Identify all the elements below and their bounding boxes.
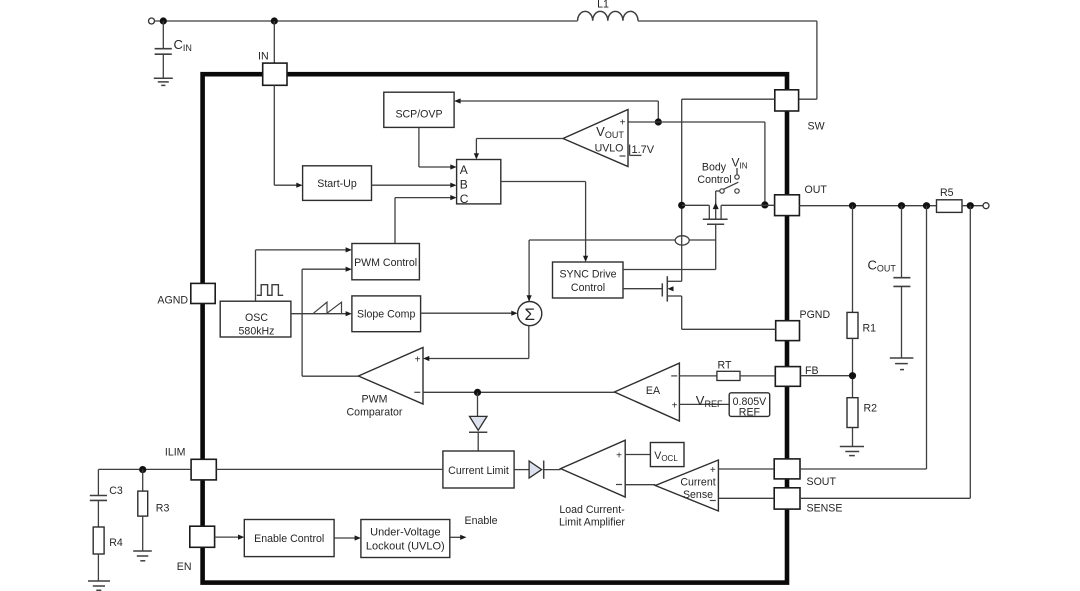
pin SOUT xyxy=(774,459,836,488)
wire OSC to Slope Comp xyxy=(291,313,347,315)
pin IN xyxy=(258,50,287,85)
pin EN xyxy=(177,526,215,573)
wire LCL plus to VOCL xyxy=(625,454,650,456)
pin PGND xyxy=(776,309,831,340)
svg-text:Start-Up: Start-Up xyxy=(317,178,357,190)
node SW-OUT pass junction xyxy=(678,202,685,209)
arrow into C xyxy=(450,195,456,200)
wire R1 to FB node xyxy=(852,338,854,397)
block SYNC Drive Control xyxy=(553,262,624,298)
wire EA output to PWM Comparator minus xyxy=(423,391,614,393)
arrow into SCP/OVP xyxy=(454,98,461,103)
wire Current Limit to diode D2 xyxy=(514,469,529,471)
svg-text:Control: Control xyxy=(571,282,605,294)
arrow into PWM Control in2 xyxy=(346,267,352,272)
svg-text:REF: REF xyxy=(739,406,761,418)
summer sigma xyxy=(518,302,542,326)
svg-text:VIN: VIN xyxy=(732,155,748,170)
wire OUT net external xyxy=(799,205,936,207)
resistor R2 xyxy=(847,398,877,446)
arrow into summer top xyxy=(527,295,532,301)
op-amp Load Current-Limit Amplifier xyxy=(559,440,625,528)
svg-text:SENSE: SENSE xyxy=(807,503,843,515)
block Enable Control xyxy=(244,520,334,557)
svg-text:+: + xyxy=(672,400,678,411)
arrow into ABC top xyxy=(474,153,479,159)
svg-text:L1: L1 xyxy=(597,0,609,11)
block Current Limit xyxy=(443,451,514,488)
svg-text:R3: R3 xyxy=(156,503,170,515)
wire RT to FB pin xyxy=(740,375,775,377)
svg-text:OSC: OSC xyxy=(245,312,268,324)
wire SYNC lower out to NMOS gate xyxy=(623,288,662,290)
transistor sync NMOS xyxy=(662,276,681,301)
wire UVLO tap to SCP/OVP xyxy=(460,100,659,102)
svg-text:CIN: CIN xyxy=(174,37,192,53)
wire SYNC upper out to body gate xyxy=(623,269,716,271)
svg-text:Lockout (UVLO): Lockout (UVLO) xyxy=(366,540,445,552)
svg-text:AGND: AGND xyxy=(157,295,188,307)
svg-text:Control: Control xyxy=(697,174,731,186)
svg-text:Body: Body xyxy=(702,162,727,174)
ground COUT xyxy=(890,358,914,370)
block ABC logic xyxy=(457,160,501,207)
svg-text:PWM: PWM xyxy=(362,393,388,405)
resistor RT xyxy=(717,359,740,380)
arrow into Start-Up xyxy=(296,183,302,188)
block Slope Comp xyxy=(352,296,421,332)
svg-text:OUT: OUT xyxy=(805,184,828,196)
wire summer output to PWM Comparator plus xyxy=(528,326,530,359)
wire NMOS source to PGND xyxy=(681,296,683,329)
label Body Control xyxy=(697,162,731,187)
node FB xyxy=(849,372,856,379)
wire ILIM pin to Current Limit xyxy=(216,468,443,470)
pin OUT xyxy=(775,184,828,215)
node UVLO plus tap xyxy=(655,118,662,125)
svg-text:Σ: Σ xyxy=(524,305,535,324)
pin AGND xyxy=(157,283,215,306)
capacitor COUT xyxy=(868,258,911,358)
resistor R4 xyxy=(93,527,123,581)
node VOUT sense junction xyxy=(761,201,768,208)
svg-text:Enable: Enable xyxy=(465,515,498,527)
reference 1.7V xyxy=(630,144,655,156)
inductor L1 xyxy=(578,0,638,21)
wire EN pin to Enable Control xyxy=(215,536,240,538)
svg-text:UVLO: UVLO xyxy=(595,143,624,155)
svg-text:R2: R2 xyxy=(864,403,878,415)
svg-text:Under-Voltage: Under-Voltage xyxy=(370,526,440,538)
wire ILIM external xyxy=(98,468,191,470)
wire IN pin drop xyxy=(273,21,275,63)
ground R2 xyxy=(840,447,864,456)
svg-text:IN: IN xyxy=(258,50,269,62)
pin ILIM xyxy=(165,447,216,480)
arrow into UVLO block xyxy=(355,535,361,540)
pin SENSE xyxy=(774,488,842,515)
svg-text:Sense: Sense xyxy=(683,489,713,501)
capacitor CIN xyxy=(155,21,192,78)
op-amp EA xyxy=(614,363,679,421)
wire Slope Comp to summer xyxy=(421,312,513,314)
svg-text:C3: C3 xyxy=(109,485,123,497)
wire VIN top rail xyxy=(155,20,578,22)
sawtooth icon xyxy=(314,302,342,313)
output terminal xyxy=(983,203,989,209)
wire EA plus to REF xyxy=(679,403,729,405)
svg-text:PGND: PGND xyxy=(800,309,831,321)
wire PWM Control to C input xyxy=(394,198,396,244)
wire UVLO plus input to VOUT sense xyxy=(628,121,765,123)
square wave icon xyxy=(257,285,283,296)
svg-text:ILIM: ILIM xyxy=(165,447,186,459)
resistor R1 xyxy=(847,312,876,338)
wire SENSE riser xyxy=(969,206,971,499)
arrow Enable stub xyxy=(460,535,466,540)
arrow into Slope Comp xyxy=(346,311,352,316)
capacitor C3 xyxy=(90,469,123,527)
op-amp PWM Comparator xyxy=(347,348,423,419)
op-amp Current Sense xyxy=(655,460,718,511)
diode D2 xyxy=(529,461,561,479)
svg-text:Limit Amplifier: Limit Amplifier xyxy=(559,516,625,528)
wire SOUT riser xyxy=(926,206,928,469)
svg-text:EN: EN xyxy=(177,561,192,573)
svg-text:SCP/OVP: SCP/OVP xyxy=(395,109,442,121)
arrow into summer xyxy=(511,311,517,316)
crossover hop xyxy=(675,236,689,245)
wire Current Sense minus to SENSE xyxy=(718,497,774,499)
arrow into A xyxy=(450,164,456,169)
node VIN junction at IN xyxy=(271,17,278,24)
arrow into SYNC top xyxy=(583,256,588,262)
input terminal xyxy=(149,18,155,24)
node OUT R1 tap xyxy=(849,202,856,209)
wire OUT net inside xyxy=(682,204,710,206)
wire R1 drop xyxy=(852,206,854,313)
block 0.805V REF xyxy=(729,393,770,419)
wire Enable Control to UVLO block xyxy=(334,537,356,539)
svg-text:Enable Control: Enable Control xyxy=(254,533,324,545)
wire summer top input from gate node xyxy=(528,240,530,302)
pin SW xyxy=(775,90,825,133)
wire Enable stub xyxy=(450,536,462,538)
svg-text:PWM Control: PWM Control xyxy=(354,257,417,269)
wire LCL minus to Current Sense out xyxy=(625,484,655,486)
pin FB xyxy=(775,365,818,386)
svg-text:B: B xyxy=(460,178,468,192)
block OSC xyxy=(220,301,291,337)
resistor R5 xyxy=(937,187,963,212)
svg-text:+: + xyxy=(620,118,626,129)
node R3 tap xyxy=(139,466,146,473)
op-amp UVLO comparator xyxy=(563,110,628,167)
svg-text:1.7V: 1.7V xyxy=(632,144,655,156)
transistor body PMOS xyxy=(703,191,728,224)
svg-text:VREF: VREF xyxy=(696,393,723,409)
wire diode tap down xyxy=(477,392,479,416)
svg-text:COUT: COUT xyxy=(868,258,897,274)
node diode tap xyxy=(474,389,481,396)
wire ABC output to SYNC xyxy=(501,181,586,183)
node OUT COUT tap xyxy=(898,202,905,209)
block Under-Voltage Lockout xyxy=(361,520,450,558)
svg-text:RT: RT xyxy=(718,359,732,371)
svg-text:C: C xyxy=(460,192,469,206)
wire SCP/OVP to A input xyxy=(418,127,420,167)
svg-text:Load Current-: Load Current- xyxy=(559,504,625,516)
svg-text:A: A xyxy=(460,163,468,177)
ground CIN xyxy=(154,78,173,85)
block VOCL xyxy=(650,443,684,467)
IC boundary xyxy=(203,74,787,582)
wire IN pin to Start-Up xyxy=(273,85,275,185)
block PWM Control xyxy=(352,244,420,280)
svg-text:580kHz: 580kHz xyxy=(239,326,275,338)
wire Start-Up to B input xyxy=(372,184,452,186)
node OUT SOUT tap xyxy=(923,202,930,209)
wire R5 to output terminal xyxy=(962,205,983,207)
wire Current Sense plus to SOUT xyxy=(718,468,774,470)
arrow into PWM Control in1 xyxy=(346,247,352,252)
wire UVLO output to ABC top xyxy=(476,138,563,140)
svg-text:EA: EA xyxy=(646,385,661,397)
block Start-Up xyxy=(303,166,372,201)
svg-text:SW: SW xyxy=(808,121,825,133)
svg-text:SYNC Drive: SYNC Drive xyxy=(559,269,616,281)
arrow into PWM Comparator plus xyxy=(423,356,429,361)
wire L1 to SW corner xyxy=(638,20,817,22)
arrow into B xyxy=(450,183,456,188)
wire SW node vertical xyxy=(681,99,683,205)
svg-text:Comparator: Comparator xyxy=(347,406,403,418)
wire PWM Comparator out to PWM Control xyxy=(301,269,303,376)
svg-text:Current: Current xyxy=(680,476,715,488)
wire COUT drop xyxy=(901,206,903,277)
svg-text:SOUT: SOUT xyxy=(807,476,837,488)
wire VOUT sense drop to OUT node xyxy=(764,122,766,205)
svg-text:+: + xyxy=(710,465,716,476)
block SCP/OVP xyxy=(384,92,454,127)
svg-text:R5: R5 xyxy=(940,187,954,199)
wire OSC to PWM Control xyxy=(255,250,257,301)
svg-text:+: + xyxy=(616,450,622,461)
diode D1 xyxy=(469,416,487,451)
svg-text:Slope Comp: Slope Comp xyxy=(357,309,415,321)
svg-text:+: + xyxy=(415,354,421,365)
resistor R3 xyxy=(138,469,170,550)
node VIN junction at CIN xyxy=(160,17,167,24)
svg-text:Current Limit: Current Limit xyxy=(448,465,509,477)
wire FB pin to divider xyxy=(800,375,852,377)
ground R4 xyxy=(88,581,110,590)
ground R3 xyxy=(133,551,152,561)
arrow into Enable Control xyxy=(238,535,244,540)
node SENSE tap xyxy=(967,202,974,209)
svg-text:R4: R4 xyxy=(109,537,123,549)
wire EA minus to RT xyxy=(679,375,717,377)
svg-text:R1: R1 xyxy=(863,323,877,335)
switch body control xyxy=(716,168,740,193)
